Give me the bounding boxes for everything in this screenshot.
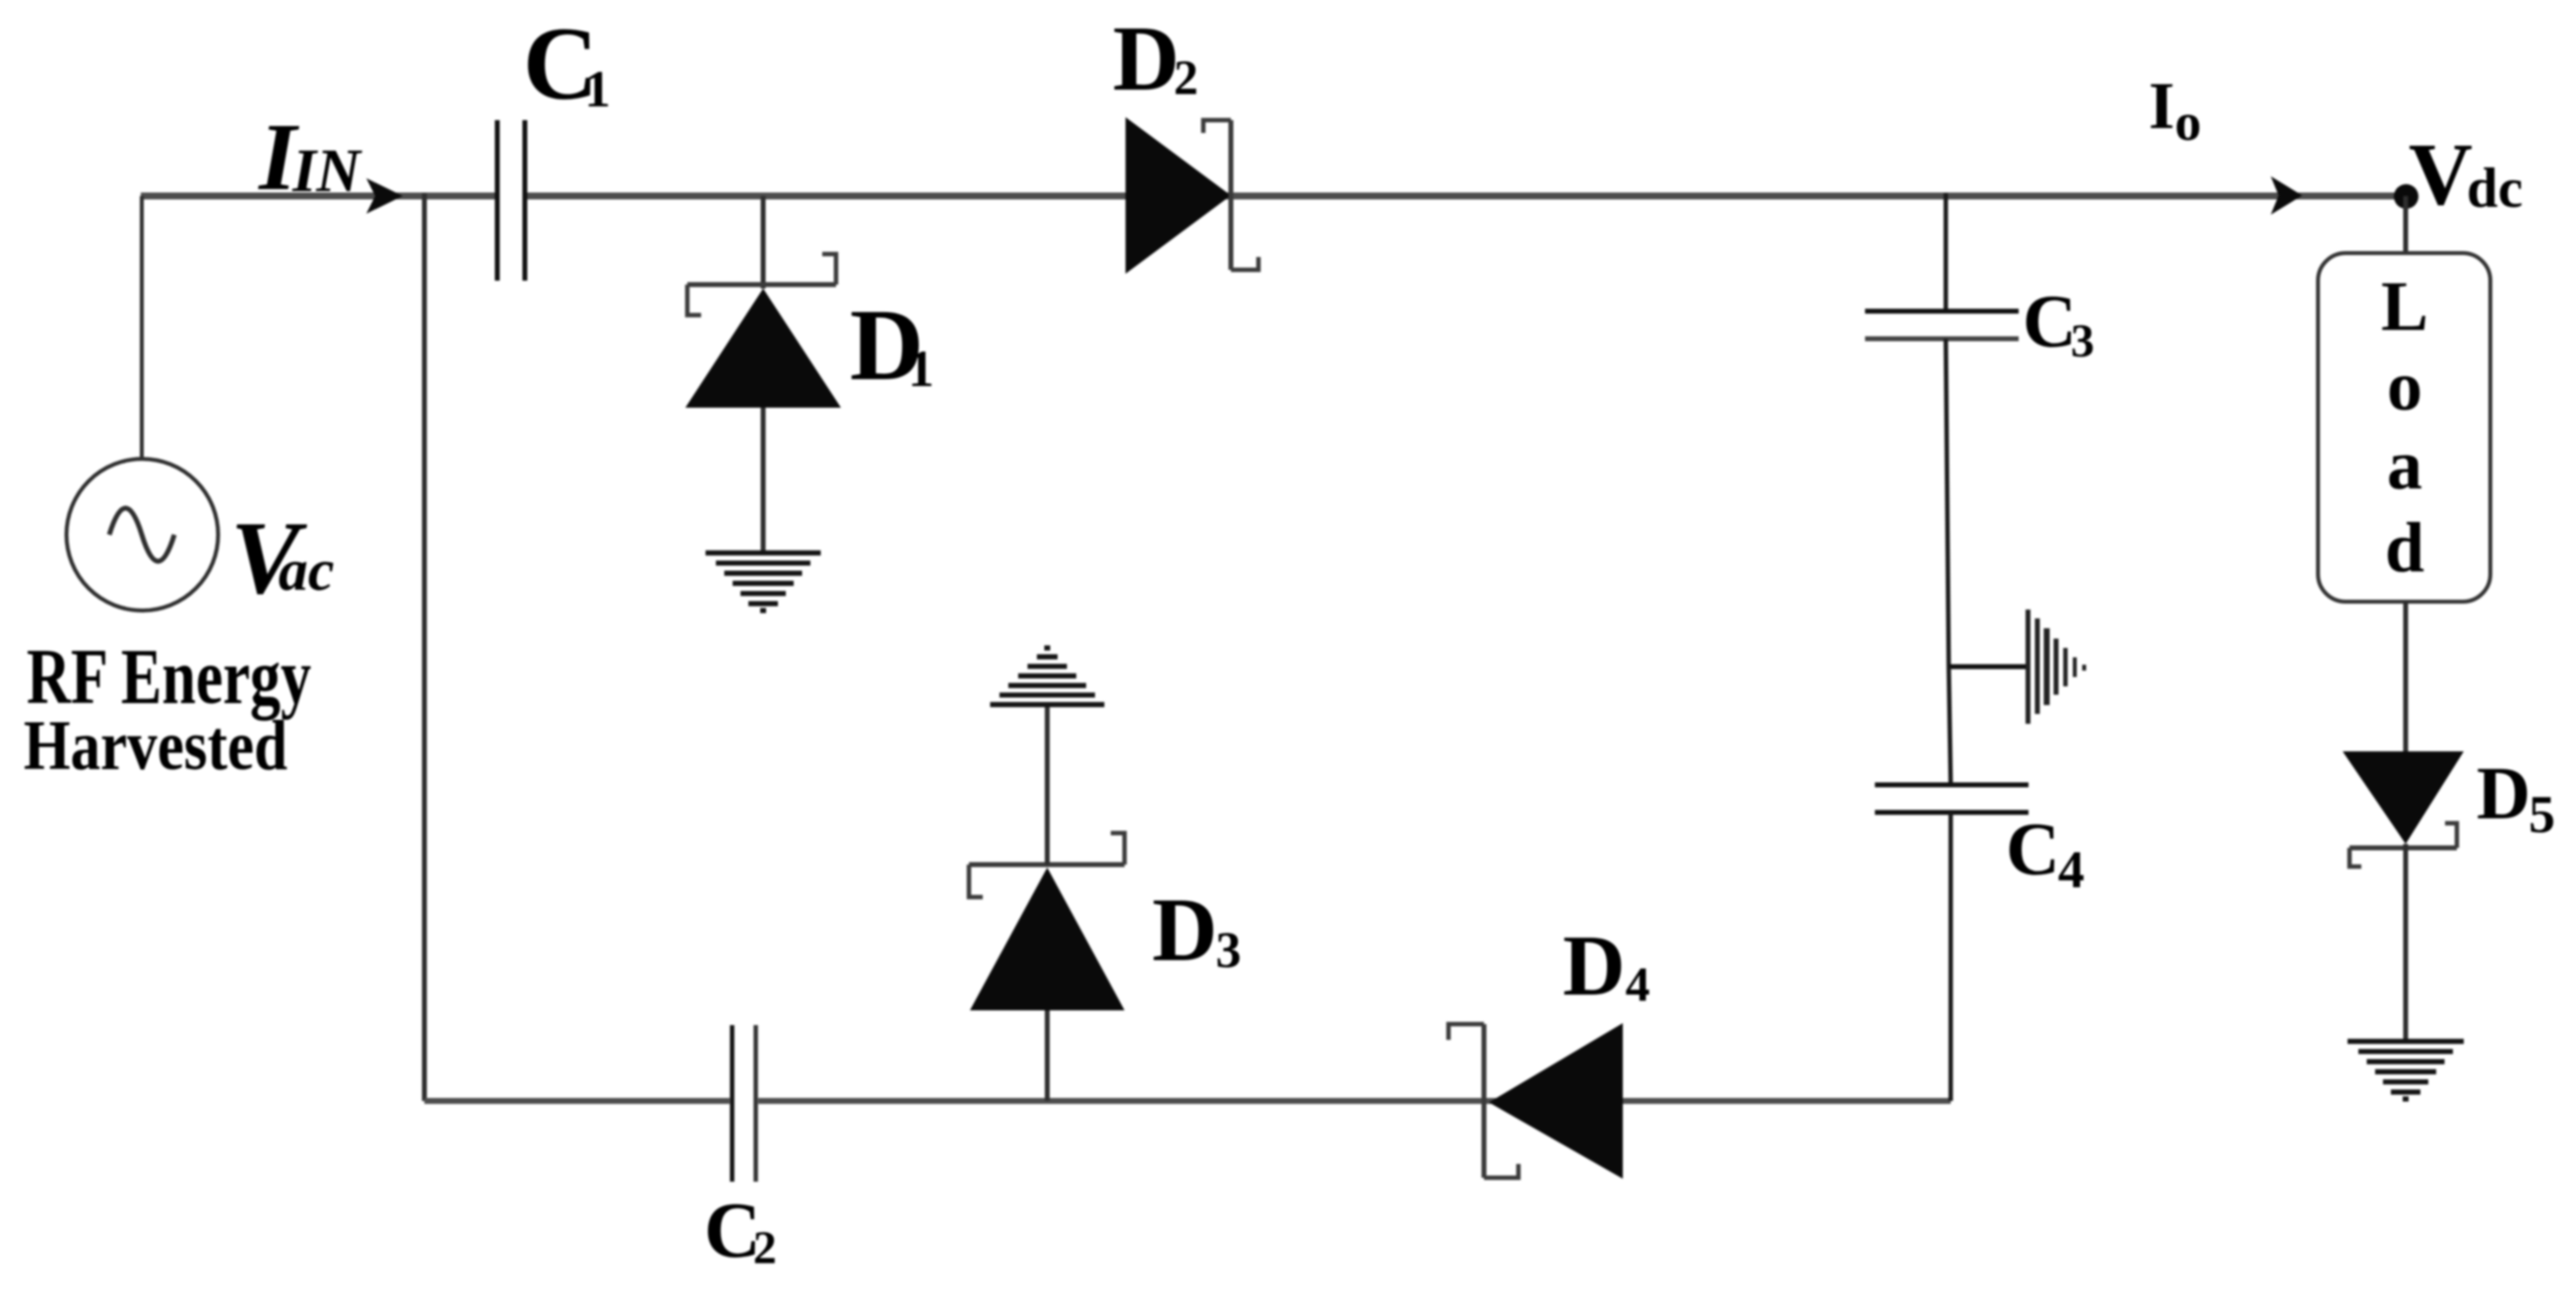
svg-text:d: d xyxy=(2385,508,2424,587)
diode D1 xyxy=(685,196,841,552)
wire left rail xyxy=(422,193,427,1101)
ground below D5 xyxy=(2348,1042,2464,1100)
load box xyxy=(2318,253,2490,602)
capacitor C2 xyxy=(733,1025,756,1182)
source Vac circle xyxy=(67,459,219,611)
node IIN arrow xyxy=(366,178,403,214)
diode D2 xyxy=(1126,117,1258,274)
wire top rail right segment xyxy=(525,193,2399,200)
capacitor C4 xyxy=(1875,785,2029,812)
capacitor C3 xyxy=(1865,311,2019,339)
capacitor C1 xyxy=(497,120,525,281)
wire C4 to bottom rail xyxy=(1949,812,1954,1101)
wire C3 branch upper xyxy=(1944,193,1949,311)
svg-text:Harvested: Harvested xyxy=(24,706,288,785)
svg-text:a: a xyxy=(2387,425,2422,504)
diode D4 xyxy=(1449,1023,1623,1179)
svg-text:C1: C1 xyxy=(523,6,611,121)
ground right-pointing xyxy=(2029,610,2085,724)
wire source stem xyxy=(140,196,144,460)
wire C3 to tap xyxy=(1946,339,1949,667)
wire top rail left segment xyxy=(141,193,497,200)
node Io arrow xyxy=(2271,176,2302,215)
svg-text:L: L xyxy=(2381,267,2428,346)
ground below D1 xyxy=(706,553,821,612)
sine symbol xyxy=(109,508,174,561)
node Vdc dot xyxy=(2394,184,2418,209)
diode D5 xyxy=(2343,751,2464,1041)
diode D3 xyxy=(969,705,1125,1101)
ground above D3 (inverted) xyxy=(991,648,1105,705)
wire bottom rail right segment xyxy=(758,1098,1951,1104)
svg-text:o: o xyxy=(2387,347,2422,425)
wire bottom rail left segment xyxy=(424,1098,730,1104)
wire load to D5 xyxy=(2404,602,2409,751)
wire node to load xyxy=(2404,196,2409,253)
wire ground tap xyxy=(1949,665,2027,670)
wire tap to C4 xyxy=(1949,667,1951,785)
svg-text:D1: D1 xyxy=(850,289,934,402)
